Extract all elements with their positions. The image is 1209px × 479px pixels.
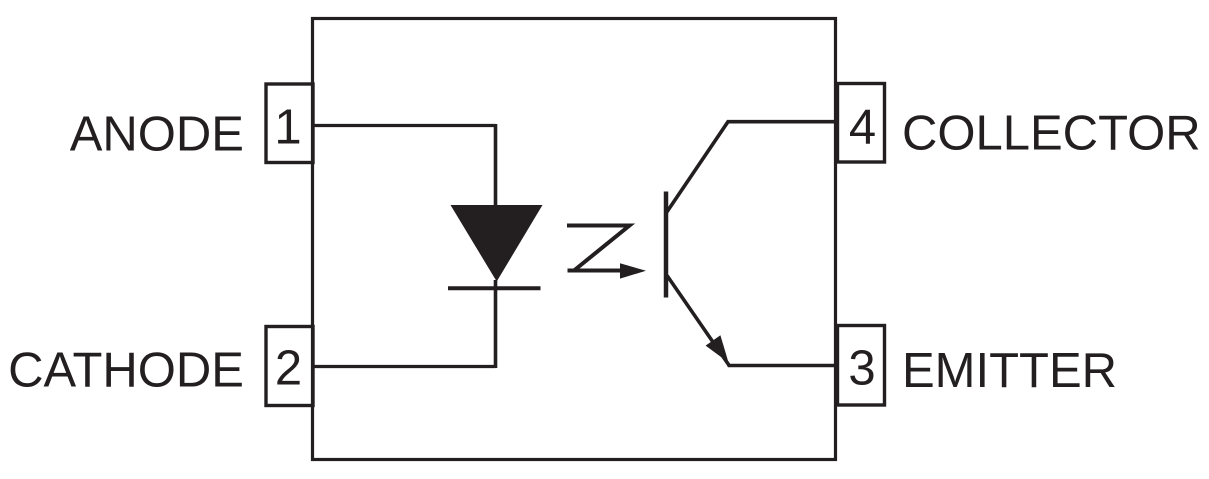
LED D1 cathode bar	[448, 286, 541, 290]
pin 1 box	[266, 84, 313, 163]
pin 4 box	[838, 84, 885, 163]
LED D1 triangle	[451, 205, 543, 282]
svg-text:3: 3	[848, 342, 875, 396]
pin 3 box	[838, 326, 885, 406]
svg-text:COLLECTOR: COLLECTOR	[902, 107, 1201, 161]
svg-text:EMITTER: EMITTER	[902, 344, 1117, 398]
light arrow head	[620, 263, 646, 278]
svg-text:4: 4	[849, 101, 876, 155]
light arrow zigzag	[567, 226, 630, 271]
svg-text:1: 1	[274, 101, 301, 155]
wire: LED anode lead	[494, 124, 498, 207]
pin 2 box	[266, 327, 313, 406]
phototransistor Q1 emitter branch and wire to pin 3	[667, 276, 837, 366]
svg-text:ANODE: ANODE	[70, 108, 244, 162]
svg-text:CATHODE: CATHODE	[8, 344, 244, 398]
svg-text:2: 2	[275, 342, 302, 396]
wire: LED cathode lead	[494, 280, 498, 368]
phototransistor Q1 base bar	[664, 192, 669, 298]
phototransistor Q1 emitter arrow head	[706, 335, 729, 362]
phototransistor Q1 collector branch and wire to pin 4	[667, 122, 838, 213]
wire: pin 1 to LED anode	[313, 124, 496, 127]
package outline	[313, 19, 836, 460]
wire: pin 2 to LED cathode	[313, 365, 496, 368]
